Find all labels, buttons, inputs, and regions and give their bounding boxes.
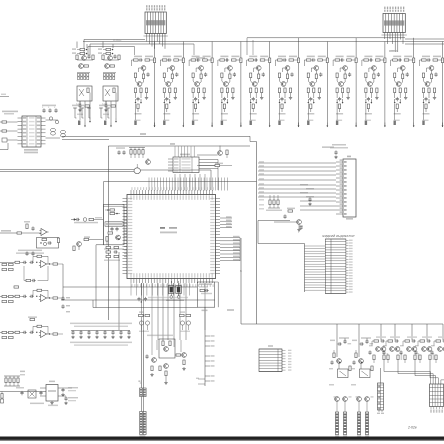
thermo driver column 4	[426, 324, 428, 340]
probe input chain	[71, 219, 76, 221]
reset circuit R40-R42 VT30	[269, 195, 271, 200]
transistor driver cell 6 (VT15,VT16)	[276, 55, 300, 127]
label X3	[347, 156, 351, 158]
bus stub MG	[220, 217, 232, 219]
wires CPU bottom to lower section	[140, 283, 142, 330]
wire cell 1 to bus	[154, 42, 156, 56]
wire cell 11 to bus	[442, 42, 444, 56]
wire cell 4 to bus	[240, 42, 242, 56]
transistor driver cell 11 (VT25,VT26)	[420, 55, 444, 127]
wire bus from X2	[384, 33, 386, 40]
label D1	[160, 227, 165, 229]
op-amp stage A1 input filter	[0, 232, 17, 234]
box bottom edge y220	[258, 220, 290, 222]
wires VCO box to CPU left pins	[124, 206, 127, 208]
wire left edge y97	[0, 96, 9, 98]
wire A2 out	[62, 264, 64, 298]
caps C5-C7 above D2	[42, 108, 45, 112]
label right mid	[389, 50, 398, 52]
label mid left	[196, 57, 205, 59]
label right cluster	[322, 146, 334, 148]
transistor driver cell 8 (VT19,VT20)	[333, 55, 357, 127]
transistor driver cell 10 (VT23,VT24)	[391, 55, 415, 127]
wire cell 8 to bus	[355, 38, 357, 55]
thermo driver column 5	[442, 324, 444, 340]
bridge VD1 C30 C31	[0, 391, 46, 393]
interface IC D2 (SN75ALS)	[22, 116, 41, 147]
svg-text:2-02в: 2-02в	[407, 426, 417, 430]
LCD feed bus	[258, 243, 305, 245]
connector X1 pin labels	[146, 5, 147, 7]
VCO subcircuit box	[103, 205, 124, 245]
wire cell 2 to bus	[182, 42, 184, 56]
voltage regulator DA1	[46, 385, 58, 402]
op-amp stage A4	[39, 331, 48, 338]
terminal matrix X7	[430, 384, 444, 407]
transistor driver cell 2 (VT7,VT8)	[160, 55, 184, 127]
svg-text:ЖИДКИЙ ИНДИКАТОР: ЖИДКИЙ ИНДИКАТОР	[321, 234, 354, 238]
IC D3 register	[173, 157, 199, 173]
RC cluster and Q5 left of D3	[130, 150, 132, 155]
connector X2 pin labels	[384, 7, 385, 9]
output caps C33 C34	[61, 388, 64, 392]
thermo driver column 3	[411, 324, 413, 340]
thermo driver column 2	[394, 324, 396, 340]
bus line y136	[62, 135, 250, 137]
label L79	[170, 143, 175, 145]
wire cell 9 to bus	[384, 42, 386, 56]
wire cell 10 to bus	[413, 38, 415, 55]
connector X3 right	[343, 159, 356, 217]
sensor connector X6	[378, 383, 384, 410]
wire vertical x119	[118, 252, 120, 330]
driver transistor pairs mid-bottom	[139, 311, 144, 312]
wire bus from X1	[84, 39, 145, 41]
opto cell B (V3,V4)	[102, 42, 104, 49]
CPU section box	[108, 145, 250, 147]
wires D3 to CPU top	[174, 174, 176, 191]
transistor driver cell 5 (VT13,VT14)	[247, 55, 271, 127]
label D2	[24, 149, 38, 151]
cell bottom labels	[135, 120, 141, 121]
wire cell 6 to bus	[298, 38, 300, 55]
op-amp stage A2 bandpass	[39, 261, 48, 268]
bus ZH2 (double line)	[0, 169, 134, 171]
EPROM box D4	[197, 282, 214, 307]
label top-left D2	[2, 111, 18, 113]
bus y324 to bottom right	[240, 238, 242, 324]
transformer T1	[46, 119, 59, 121]
transistor driver cell 1 (VT5,VT6)	[132, 55, 156, 127]
label above D3	[180, 154, 190, 156]
wire cell 7 to bus	[326, 42, 328, 56]
divider parts below VCO box	[104, 248, 124, 250]
label X7A right of EPROM	[227, 309, 234, 311]
connector X1	[145, 12, 166, 34]
thermo driver column 1	[380, 324, 382, 340]
CPU D1 (1830BE31)	[127, 195, 216, 279]
wire D2 area to right	[62, 139, 109, 141]
power rail stubs +12V	[74, 108, 76, 118]
resistor pack RP1	[5, 376, 7, 378]
resistors R1 R2 left of D2	[2, 121, 7, 123]
signal stubs right of keyboard net	[204, 330, 206, 386]
wire x256 join	[256, 323, 258, 325]
output channel 1 (K1)	[336, 324, 338, 357]
transistor driver cell 3 (VT9,VT10)	[189, 55, 213, 127]
transistor driver cell 4 (VT11,VT12)	[218, 55, 242, 127]
wire A3 out	[61, 299, 215, 301]
decoupling cap row C20-C27	[70, 323, 132, 325]
labels near X3 lower	[300, 184, 308, 185]
opto cell A (V1,V2)	[76, 42, 78, 49]
bus with labels to ROM	[220, 237, 240, 239]
label ZH2	[140, 133, 146, 135]
Q6 R22 right of D3	[218, 151, 223, 156]
cap near LCD	[299, 225, 302, 229]
wire cell 3 to bus	[211, 42, 213, 56]
connector X4 ladder	[259, 349, 282, 372]
R30 Q8 left of VCO box	[84, 238, 89, 240]
sheet bottom border band	[0, 437, 444, 440]
op-amp stage A3	[39, 295, 48, 302]
cap labels mid	[66, 297, 70, 298]
caps at probe line	[137, 297, 140, 301]
svg-text:12-12Vcc: 12-12Vcc	[113, 40, 121, 42]
probe connector X5	[140, 330, 142, 388]
crystal ZQ1 circuit	[169, 286, 175, 294]
output channel 2 (K2)	[358, 324, 360, 357]
caps above X3	[332, 144, 346, 146]
wire D2 to left edge	[0, 149, 8, 151]
wire cell 5 to bus	[269, 42, 271, 56]
keyboard transistor network VT20-VT23	[159, 339, 175, 358]
wire stage bus vertical x96	[96, 244, 103, 246]
transistor driver cell 9 (VT21,VT22)	[362, 55, 386, 127]
PSU labels	[30, 403, 44, 405]
bus CPU to X3	[258, 162, 336, 164]
transistor driver cell 7 (VT17,VT18)	[304, 55, 328, 127]
connector X2	[383, 14, 405, 33]
